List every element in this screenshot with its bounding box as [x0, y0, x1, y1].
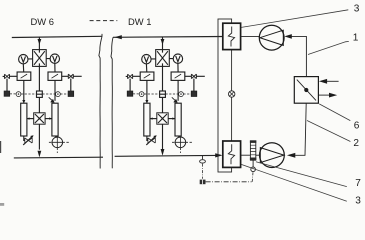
svg-text:6: 6 [354, 121, 360, 132]
heater top element [228, 27, 234, 47]
fan top [259, 25, 284, 50]
line heater to fan [241, 36, 260, 38]
return arrow into heater [215, 153, 222, 157]
svg-text:DW 1: DW 1 [128, 16, 151, 27]
break line right [111, 37, 113, 168]
scan mark lower left [0, 203, 4, 206]
line humidifier to heater [241, 154, 251, 156]
drain dashdot rise [251, 172, 254, 182]
valve on duct [229, 91, 235, 97]
dashed separator [90, 20, 118, 22]
leader 1 [308, 41, 349, 54]
drain stem humidifier [252, 160, 254, 167]
heater top [223, 23, 241, 49]
drain dashdot vertical [202, 164, 204, 179]
duct frame [218, 19, 232, 172]
return rail DW6 [14, 156, 103, 159]
heater bottom [223, 141, 241, 167]
control in arrow [327, 80, 339, 82]
drain dashdot horizontal [206, 181, 252, 183]
line fan to humidifier [256, 154, 260, 156]
svg-text:2: 2 [353, 138, 359, 149]
leader 3 bottom [241, 164, 347, 201]
drain plug [200, 180, 206, 185]
inlet arrow top [284, 34, 292, 39]
svg-text:DW 6: DW 6 [31, 16, 54, 27]
break line left [99, 34, 102, 169]
control unit blade [297, 80, 316, 101]
unit DW1 [126, 37, 205, 153]
svg-text:1: 1 [353, 32, 359, 43]
svg-text:3: 3 [354, 3, 360, 14]
svg-text:3: 3 [355, 196, 361, 207]
control out arrow [319, 94, 329, 96]
DW1 outlet arrow [161, 149, 165, 156]
leader 7 [256, 162, 347, 187]
return rail DW1 [115, 154, 216, 157]
supply rail DW6 [12, 36, 102, 37]
scan mark left edge [0, 141, 2, 153]
unit DW6 [3, 37, 82, 153]
supply rail DW1 [113, 36, 223, 39]
rail drain stem [202, 156, 204, 159]
humidifier [250, 141, 255, 160]
fan bottom [260, 143, 285, 168]
rail drain funnel [200, 160, 206, 163]
leader 6 [319, 104, 350, 121]
leader 2 [307, 121, 350, 142]
control unit [294, 77, 318, 104]
inlet arrow bottom [287, 153, 295, 158]
drain circle [251, 167, 256, 172]
inlet line top [290, 36, 306, 76]
DW6 outlet arrow [38, 151, 42, 158]
supply arrow DW1 [114, 35, 121, 39]
heater bottom element [228, 144, 234, 164]
svg-text:7: 7 [355, 178, 361, 189]
leader 3 top [241, 10, 348, 28]
line control to fan bottom [295, 103, 306, 155]
